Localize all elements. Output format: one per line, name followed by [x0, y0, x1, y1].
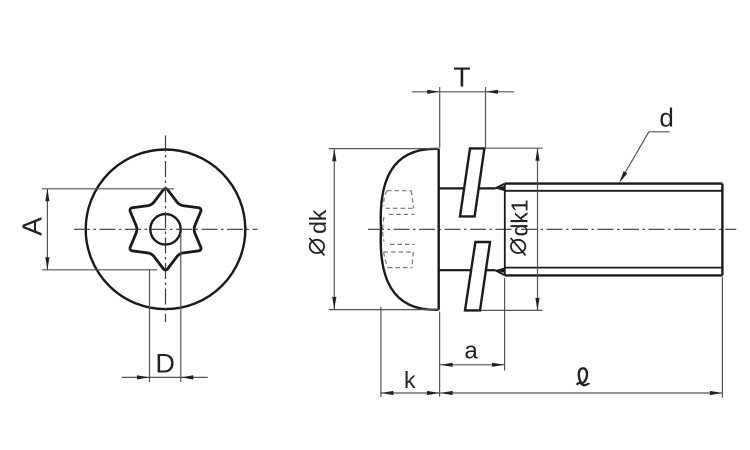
- dimension phi-dk1 line: [537, 148, 539, 310]
- label phi dk: [305, 209, 331, 255]
- thread start boundary vertical: [504, 184, 506, 276]
- neck bottom line segments: [439, 269, 471, 271]
- svg-text:a: a: [464, 337, 478, 364]
- pan head profile dome: [381, 149, 439, 310]
- spring washer lower half: [465, 242, 490, 310]
- horizontal centerline of front view: [74, 228, 258, 230]
- leader d slant: [621, 132, 649, 181]
- svg-text:A: A: [17, 217, 48, 236]
- dimension l extension right: [721, 277, 723, 398]
- leader d underline: [649, 131, 670, 133]
- dimension phi-dk line: [333, 149, 335, 310]
- dimension A extension line bottom: [42, 269, 157, 271]
- dimension a line: [440, 364, 505, 366]
- center pilot circle of torx recess: [150, 214, 180, 244]
- dimension phi-dk1 extension bottom: [481, 309, 543, 311]
- torx recess star outline: [130, 189, 201, 270]
- thread root bottom line: [505, 267, 723, 269]
- thread run-out chamfer top: [495, 184, 504, 189]
- dimension D line: [122, 376, 208, 378]
- svg-text:T: T: [453, 62, 470, 93]
- dimension k line: [381, 392, 440, 394]
- pan head right face: [438, 149, 440, 310]
- svg-text:dk: dk: [305, 209, 331, 234]
- dimension a extension right: [504, 278, 506, 371]
- hidden torx recess lines (lower lobe): [390, 243, 415, 245]
- spring washer upper half: [460, 148, 484, 216]
- screw head front view: outer circle: [86, 150, 246, 310]
- thread run-out chamfer bottom: [495, 270, 504, 275]
- hidden torx recess lines (center): [383, 217, 384, 242]
- thread root top line: [505, 190, 723, 192]
- dimension phi-dk extension bottom: [329, 309, 439, 311]
- hidden torx recess lines (upper lobe): [387, 190, 411, 192]
- dimension A extension line top: [42, 188, 174, 190]
- shared extension line under head face: [439, 312, 441, 397]
- dimension phi-dk extension top: [329, 148, 439, 150]
- svg-text:D: D: [155, 349, 175, 379]
- dimension D extension line right: [180, 233, 182, 382]
- side view horizontal centerline: [368, 228, 736, 230]
- vertical centerline of front view: [165, 136, 167, 323]
- dimension T line: [412, 91, 514, 93]
- label script ell: [579, 368, 587, 383]
- svg-text:d: d: [659, 103, 673, 133]
- dimension k extension left: [380, 307, 382, 397]
- dimension D extension line left: [149, 269, 151, 382]
- dimension A line: [46, 189, 48, 270]
- neck top line segments: [439, 187, 464, 189]
- svg-text:dk1: dk1: [507, 199, 533, 236]
- shank outer bottom line: [505, 274, 723, 276]
- dimension T extension right: [485, 87, 487, 148]
- label phi dk1: [507, 199, 533, 255]
- dimension phi-dk1 extension top: [486, 147, 543, 149]
- dimension T extension left: [439, 87, 441, 148]
- svg-text:k: k: [404, 367, 416, 393]
- shank outer top line: [505, 182, 723, 184]
- shank end face: [721, 184, 723, 276]
- dimension l line: [440, 392, 722, 394]
